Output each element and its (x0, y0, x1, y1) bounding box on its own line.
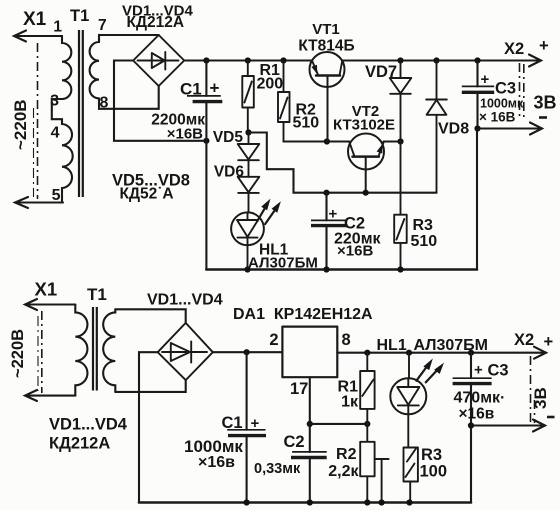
node C2 bottom rail (307, 499, 313, 505)
diode VD7 (390, 61, 412, 142)
T1 secondary winding (90, 35, 99, 99)
resistor R3 (top) (394, 142, 407, 270)
X2 dash-dot boundary (bottom) (531, 356, 535, 423)
svg-text:+: + (251, 415, 260, 432)
node C1 bottom junction (203, 138, 209, 144)
svg-text:0,33мк: 0,33мк (254, 461, 301, 477)
capacitor C3 (top) (462, 61, 494, 129)
svg-text:5: 5 (52, 187, 61, 204)
node VT2 base (363, 190, 369, 196)
capacitor C2 (top) (311, 193, 348, 270)
X1 dash-dot boundary (34, 43, 38, 199)
svg-text:HL1: HL1 (377, 337, 407, 354)
svg-text:КД212А: КД212А (49, 435, 110, 453)
svg-text:DA1 КР142ЕН12А: DA1 КР142ЕН12А (233, 306, 373, 323)
T1 secondary winding (bottom) (103, 309, 115, 392)
svg-text:×16в: ×16в (459, 406, 495, 423)
resistor R2 (top) (278, 61, 290, 142)
transistor VT1 КТ814Б (310, 52, 345, 142)
regulator DA1 КР142ЕН12А (282, 327, 337, 378)
capacitor C1 (bottom) (227, 352, 266, 502)
svg-text:~220В: ~220В (11, 99, 30, 150)
node R2 bottom rail (364, 499, 370, 505)
bottom rail (top schematic) (206, 268, 477, 271)
LED HL1 (bottom) (390, 353, 444, 447)
svg-text:C2: C2 (284, 433, 305, 451)
wire X2 minus output (bottom) (471, 420, 545, 432)
svg-text:7: 7 (98, 17, 107, 34)
svg-text:T1: T1 (70, 7, 89, 25)
T1 primary winding (52, 36, 73, 203)
svg-text:C1: C1 (180, 80, 202, 99)
wire secondary bottom to bridge (bottom) (115, 380, 185, 392)
node C1 top (bottom) (244, 349, 250, 355)
node HL1 bottom (244, 266, 250, 272)
label minus (top) (539, 116, 547, 119)
svg-text:×16В: ×16В (167, 126, 203, 143)
X1 pin arrow top (bottom schematic) (25, 299, 75, 310)
diode VD8 (426, 61, 447, 193)
svg-text:+: + (539, 37, 549, 55)
svg-text:~220В: ~220В (9, 329, 27, 378)
svg-text:X1: X1 (23, 9, 47, 30)
svg-text:1к: 1к (341, 394, 359, 411)
svg-text:C1: C1 (222, 414, 243, 432)
svg-text:3В: 3В (531, 387, 550, 409)
svg-text:+: + (210, 79, 220, 98)
svg-text:T1: T1 (87, 285, 107, 304)
wire bridge minus down-left rail (bottom) (139, 352, 158, 502)
svg-text:2: 2 (269, 331, 278, 349)
svg-text:2,2к: 2,2к (328, 463, 359, 480)
wire VT2 emitter to VD7 bottom (384, 140, 401, 142)
node R1 top (245, 57, 251, 63)
node VD5 anode junction (245, 129, 251, 135)
wire rail up to X2 minus node (476, 129, 478, 270)
svg-text:100: 100 (420, 463, 448, 481)
bridge rectifier VD1-VD4 (bottom) (158, 323, 213, 380)
node R3 bottom rail (406, 499, 412, 505)
svg-text:+: + (329, 206, 338, 223)
X1 dash-dot boundary (bottom) (38, 311, 42, 393)
wire + rail left segment (bridge to VT1 emitter) (184, 59, 312, 61)
svg-text:АЛ307БМ: АЛ307БМ (414, 337, 489, 354)
svg-text:VD7: VD7 (365, 63, 397, 81)
svg-text:+: + (544, 333, 554, 351)
wire staircase VD5 node to VT2 base node (249, 133, 437, 193)
capacitor C2 (bottom) 0,33мк (291, 452, 327, 503)
wire DA1 pin 17 lead (309, 377, 311, 452)
capacitor C1 (top) (187, 61, 222, 270)
node HL1 top (bottom) (406, 350, 412, 356)
svg-text:VD5: VD5 (213, 129, 244, 146)
svg-text:3В: 3В (534, 93, 557, 113)
svg-text:VD1...VD4: VD1...VD4 (49, 416, 128, 434)
svg-text:КД52˙А: КД52˙А (120, 186, 174, 203)
wire + rail right segment (VT1 collector to X2+) (342, 59, 541, 61)
svg-text:× 16В: × 16В (479, 110, 516, 125)
svg-text:C3: C3 (488, 362, 509, 380)
node C3 top (bottom) (468, 350, 474, 356)
svg-text:X2: X2 (504, 40, 524, 58)
node C1 bottom rail (244, 499, 250, 505)
wire X2 minus output (478, 123, 543, 135)
diode VD5 (238, 133, 260, 177)
svg-text:VD6: VD6 (214, 164, 245, 181)
node C1 top (203, 57, 209, 63)
node C2 top (323, 190, 329, 196)
svg-text:C3: C3 (495, 80, 516, 98)
svg-text:×16В: ×16В (337, 243, 373, 260)
T1 core (79, 30, 83, 197)
svg-text:VT1: VT1 (312, 21, 340, 38)
node C2 bottom (323, 266, 329, 272)
svg-text:X1: X1 (35, 279, 58, 300)
diode VD6 (238, 177, 260, 213)
node X2 minus (474, 125, 480, 131)
transistor VT2 КТ3102Е (348, 134, 384, 193)
X1 pin arrow bottom (15, 197, 63, 208)
wire DA1 pin 8 output to X2+ (337, 347, 546, 359)
node X2 minus (bottom) (468, 422, 474, 428)
wire bridge plus to DA1 pin2 (213, 351, 283, 353)
svg-text:17: 17 (290, 380, 308, 398)
svg-text:VD8: VD8 (438, 121, 469, 138)
svg-text:X2: X2 (514, 331, 534, 349)
label minus (bottom) (547, 416, 555, 419)
T1 core (bottom) (93, 307, 97, 391)
T1 primary winding (bottom) (75, 305, 87, 396)
svg-text:+: + (481, 71, 490, 88)
node R3 bottom (397, 266, 403, 272)
resistor R1 (top) (242, 61, 254, 133)
svg-text:470мк·: 470мк· (454, 390, 506, 407)
svg-text:R3: R3 (421, 446, 442, 464)
node VD7 top (397, 57, 403, 63)
node pin17 branch (307, 421, 313, 427)
node VT1 base junction (324, 138, 330, 144)
capacitor C3 (bottom) (453, 353, 492, 503)
resistor R1 (bottom) 1к (360, 353, 374, 424)
wire pin7 to bridge top (99, 34, 159, 36)
svg-text:R2: R2 (336, 446, 357, 463)
X1 pin arrow bottom (bottom schematic) (25, 390, 75, 401)
node VD8 top (433, 57, 439, 63)
node VD7 bottom / VT2 emitter (397, 138, 403, 144)
resistor R3 (bottom) 100 (404, 448, 418, 503)
resistor R2 (bottom) 2,2к trimmer (360, 424, 388, 503)
X2 dash-dot boundary (top) (520, 63, 524, 119)
svg-text:КД212А: КД212А (127, 14, 185, 31)
svg-text:КТ814Б: КТ814Б (298, 38, 354, 55)
wire R2 bottom to VT2 collector (284, 140, 350, 142)
svg-text:510: 510 (411, 233, 438, 250)
wire bridge minus L-shape to C1 bottom (114, 61, 206, 141)
svg-text:КТ3102Е: КТ3102Е (333, 117, 395, 134)
node R2 top (280, 57, 286, 63)
bottom rail (bottom schematic) (139, 501, 471, 504)
svg-text:+: + (474, 362, 483, 379)
wire pin8 to bridge bottom (99, 86, 159, 109)
svg-text:8: 8 (342, 331, 351, 349)
node R1 bottom junction (364, 421, 370, 427)
LED HL1 (top) АЛ307БМ (231, 199, 281, 270)
svg-text:1: 1 (53, 19, 62, 36)
svg-text:R3: R3 (413, 217, 434, 234)
wire secondary top to bridge (bottom) (115, 309, 185, 323)
X2 + arrow (top) (529, 55, 541, 67)
svg-text:510: 510 (293, 115, 320, 132)
node R1 top (bottom) (364, 350, 370, 356)
bridge rectifier VD1-VD4 (top) (133, 35, 184, 86)
svg-text:VD1...VD4: VD1...VD4 (147, 292, 223, 309)
node C3 top (474, 57, 480, 63)
svg-text:1000мк: 1000мк (480, 97, 524, 111)
node R2 wiper rail (379, 499, 385, 505)
X1 pin arrow top (14, 31, 62, 42)
wire pin17 branch to R1/R2 (310, 423, 368, 425)
svg-text:×16в: ×16в (198, 454, 235, 471)
svg-text:200: 200 (257, 76, 284, 93)
svg-text:4: 4 (51, 125, 60, 142)
